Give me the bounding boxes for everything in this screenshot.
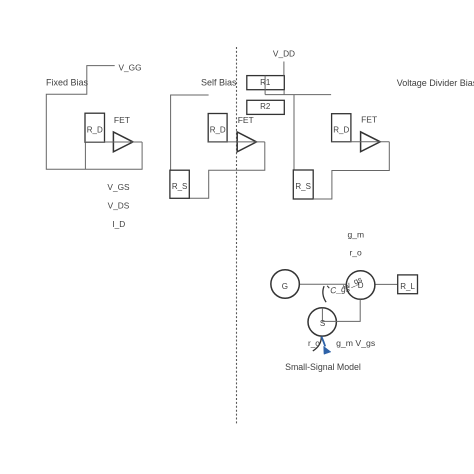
svg-text:R2: R2 [260,102,271,111]
svg-text:FET: FET [238,115,254,125]
resistor r_o arc [313,337,322,352]
resistor R_L [398,275,418,294]
wire D to S corner [322,299,360,321]
wire drain through FET (voltage divider) [332,141,390,143]
node G [271,270,300,299]
resistor R_D (self bias) [208,114,227,142]
wire source loop (voltage divider) [313,142,389,199]
svg-text:Small-Signal Model: Small-Signal Model [285,362,361,372]
node S [308,308,336,336]
svg-text:R_D: R_D [210,126,226,135]
resistor R1 [247,76,284,90]
current source arrow g_m V_gs [321,337,325,347]
wire V_DD stub [283,62,285,76]
svg-text:V_DD: V_DD [273,49,295,59]
svg-text:Self Bias: Self Bias [201,77,237,87]
svg-text:R_L: R_L [400,282,415,291]
wire R_D drop [84,142,86,169]
wire drain through FET (self bias) [208,141,265,143]
svg-text:r_o: r_o [349,248,362,258]
node D [346,271,375,300]
wire V_GG to gate loop [46,66,142,170]
svg-text:V_DS: V_DS [108,201,130,211]
capacitor C_gs arc [323,286,326,302]
wire D to R_L [375,283,398,285]
wire gate drop [293,95,295,170]
svg-text:V_GS: V_GS [107,182,130,192]
wire source loop [189,142,264,198]
wire bus [265,94,331,96]
svg-text:I_D: I_D [112,219,125,229]
svg-text:V_GG: V_GG [119,63,142,73]
resistor R_S (self bias) [170,170,189,198]
svg-text:R_D: R_D [333,126,349,135]
resistor R_S (voltage divider) [293,170,313,199]
svg-text:g_m V_gs: g_m V_gs [336,338,376,348]
svg-text:g_m: g_m [348,230,365,240]
divider dashed line [236,47,238,424]
wire drain through FET [85,141,142,143]
capacitor C_gs tick [327,286,329,288]
wire R1 right stub [283,90,285,95]
svg-text:G: G [282,282,288,291]
svg-text:R_S: R_S [295,182,311,191]
svg-text:r_o: r_o [308,339,320,348]
wire top gate [171,95,209,170]
resistor R_D [85,113,105,142]
svg-text:Voltage Divider Bias: Voltage Divider Bias [397,78,474,88]
wire G to D [299,283,346,285]
svg-text:R_D: R_D [87,125,103,134]
resistor R2 [247,100,284,114]
wire into S top [321,308,323,322]
resistor R_D (voltage divider) [332,114,351,142]
wire through R1 [264,76,266,95]
svg-text:R_S: R_S [172,182,188,191]
svg-text:FET: FET [361,115,377,125]
svg-text:FET: FET [114,115,130,125]
svg-text:Fixed Bias: Fixed Bias [46,77,89,87]
svg-text:S: S [320,319,325,328]
